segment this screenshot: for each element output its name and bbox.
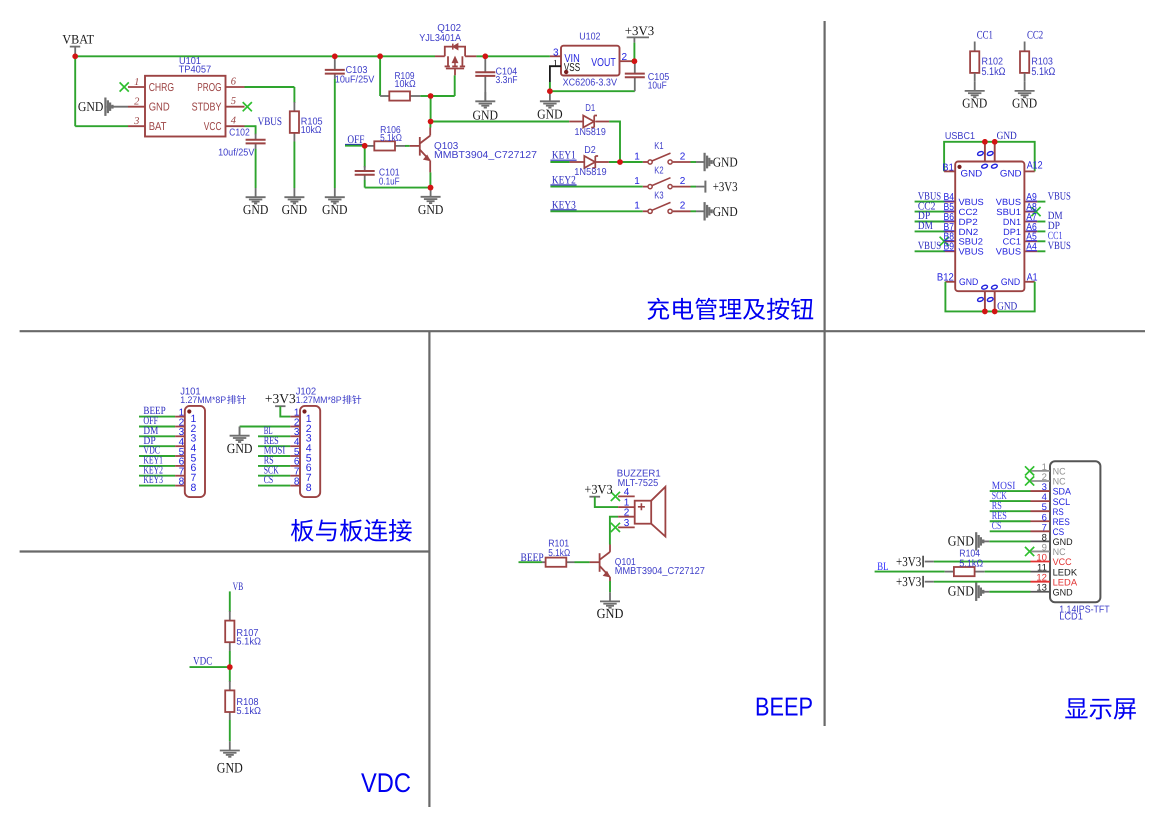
usb pad ellipse top-in 2	[991, 163, 998, 168]
svg-text:GND: GND	[78, 99, 104, 114]
svg-text:5.1kΩ: 5.1kΩ	[236, 706, 261, 717]
junction usb bottom 2	[992, 309, 998, 315]
switch K1	[648, 153, 672, 164]
usb pad ellipse bot-out 1	[977, 297, 984, 302]
svg-text:GND: GND	[473, 107, 499, 122]
wire collector node to D1	[431, 121, 570, 123]
wire J102 pin 4	[258, 445, 290, 447]
LCD1 body	[1050, 461, 1100, 602]
svg-text:1: 1	[134, 77, 139, 88]
svg-text:4: 4	[231, 116, 237, 127]
junction VSS gnd	[547, 88, 553, 94]
wire VB	[229, 591, 231, 612]
usb pin A5 stub	[1024, 240, 1037, 242]
wire LCD pin 13 gnd	[983, 591, 989, 593]
svg-text:VBUS: VBUS	[1048, 190, 1071, 202]
svg-text:VCC: VCC	[204, 121, 222, 133]
capacitor C105	[625, 74, 645, 78]
LCD1 pin 9 stub	[1031, 550, 1051, 552]
resistor R108	[225, 690, 234, 712]
wire J102 pin 7	[258, 475, 290, 477]
capacitor C102	[246, 140, 266, 144]
junction OFF node	[362, 143, 368, 149]
usb pin B5 stub	[945, 211, 955, 213]
net label OFF underline	[345, 143, 366, 145]
wire R105 to gnd	[293, 142, 295, 189]
svg-text:+3V3: +3V3	[713, 179, 738, 194]
svg-text:1.27MM*8P: 1.27MM*8P	[180, 395, 226, 406]
svg-text:5: 5	[231, 96, 236, 107]
svg-text:1: 1	[553, 58, 558, 69]
svg-text:CS: CS	[264, 474, 274, 486]
svg-text:10kΩ: 10kΩ	[395, 79, 417, 90]
ground R102	[965, 82, 985, 98]
svg-text:VBAT: VBAT	[62, 32, 94, 47]
svg-text:USBC1: USBC1	[945, 131, 975, 142]
svg-text:GND: GND	[243, 202, 269, 217]
svg-text:5.1kΩ: 5.1kΩ	[380, 133, 402, 144]
LCD1 pin 13 stub	[1031, 591, 1051, 593]
svg-text:+3V3: +3V3	[265, 391, 296, 406]
svg-text:1N5819: 1N5819	[575, 127, 607, 138]
wire K1 to gnd	[691, 161, 697, 163]
wire J101 pin 4	[139, 445, 175, 447]
usb pin A4 stub	[1024, 250, 1037, 252]
wire C101 to emitter	[364, 180, 366, 188]
buzzer pin 3 stub	[618, 526, 635, 528]
wire J101 pin 7	[139, 475, 175, 477]
resistor R107 stubs	[229, 611, 231, 621]
usb pin B6 stub	[945, 221, 955, 223]
resistor R104 stubs	[945, 571, 954, 573]
wire R106 to Q103 base	[405, 145, 410, 147]
svg-text:D2: D2	[584, 145, 596, 156]
K2 pin 2 stub	[673, 186, 691, 188]
usb pad ellipse top-in 1	[981, 163, 988, 168]
connector J101 body	[185, 406, 205, 497]
J101 pin 4 stub	[175, 445, 185, 447]
U102 VSS pin dot	[564, 70, 568, 74]
svg-text:+3V3: +3V3	[896, 574, 921, 589]
usb shield stubs bottom	[984, 291, 986, 311]
svg-text:GND: GND	[948, 534, 974, 549]
svg-text:GND: GND	[597, 607, 624, 622]
wire R103 gnd	[1024, 73, 1026, 82]
IC U101 TP4057 body	[145, 76, 226, 137]
wire OFF	[345, 145, 365, 147]
divider vertical right	[823, 21, 825, 726]
wire to BAT pin	[75, 125, 128, 127]
usb pin B8 stub	[945, 240, 955, 242]
power flag +3V3 U102	[627, 36, 649, 38]
svg-text:1N5819: 1N5819	[574, 167, 607, 178]
LCD1 pin 5 stub	[1031, 510, 1051, 512]
ground R108	[220, 741, 240, 757]
resistor R105 stubs	[293, 102, 295, 111]
KEY3 underline	[550, 209, 576, 211]
wire LCD pin 7	[990, 530, 1031, 532]
svg-text:XC6206-3.3V: XC6206-3.3V	[563, 77, 618, 88]
U102 pin 2 stub	[620, 60, 632, 62]
wire node to R108	[229, 667, 231, 682]
J102 pin 8 stub	[290, 485, 300, 487]
capacitor C101 stubs	[364, 166, 366, 171]
wire C103 to gnd	[334, 79, 336, 188]
wire usb A6	[1037, 230, 1045, 232]
svg-text:LCD1: LCD1	[1059, 612, 1083, 623]
KEY1 underline	[550, 159, 576, 161]
svg-text:8: 8	[294, 476, 300, 487]
wire J101 pin 1	[139, 416, 175, 418]
J101 pin 6 stub	[175, 465, 185, 467]
wire VSS black	[550, 66, 561, 82]
resistor R106	[374, 141, 395, 150]
no-connect X B8	[940, 237, 949, 246]
U101 pin 1 stub	[128, 86, 145, 88]
wire D1 to K1 col	[609, 122, 620, 163]
wire usb B6	[915, 221, 945, 223]
resistor R101 stubs	[542, 561, 546, 563]
svg-text:3: 3	[624, 518, 630, 529]
svg-text:3: 3	[553, 47, 559, 58]
resistor R102	[970, 51, 979, 73]
section title 充电管理及按钮	[648, 298, 814, 320]
svg-text:VBUS: VBUS	[258, 116, 282, 128]
wire VDC	[190, 666, 230, 668]
diode D1 1N5819	[583, 116, 597, 128]
ground J102 pin2	[230, 427, 250, 443]
svg-text:CC1: CC1	[977, 30, 993, 42]
J102 pin 6 stub	[290, 465, 300, 467]
J101 pin 8 stub	[175, 485, 185, 487]
power flag +3V3 LCD pin 10	[922, 556, 924, 568]
J102 pin 1 stub	[290, 416, 300, 418]
svg-text:C102: C102	[229, 128, 250, 139]
svg-text:+3V3: +3V3	[625, 23, 655, 38]
junction VBAT	[72, 54, 78, 60]
K3 pin 2 stub	[673, 210, 691, 212]
wire usb A5	[1037, 240, 1045, 242]
wire K2 to +3V3	[691, 186, 697, 188]
usb pin A9 stub	[1024, 201, 1037, 203]
wire LCD pin 8 gnd	[983, 540, 989, 542]
LCD1 pin 7 stub	[1031, 530, 1051, 532]
svg-text:VOUT: VOUT	[591, 57, 615, 69]
U101 pin 2 stub	[128, 106, 145, 108]
wire PROG to R105	[245, 86, 295, 88]
usb pin A1 stub	[1024, 281, 1034, 283]
wire Q103 collector node	[430, 96, 432, 122]
wire usb B9	[915, 250, 945, 252]
svg-text:VBUS: VBUS	[959, 197, 984, 207]
wire R107 to node	[229, 651, 231, 667]
wire VBAT down	[74, 56, 76, 126]
svg-text:K2: K2	[654, 166, 664, 177]
U101 pin 6 stub	[226, 86, 245, 88]
svg-text:3.3nF: 3.3nF	[496, 75, 518, 86]
resistor R101	[546, 558, 567, 567]
divider horizontal top	[20, 330, 1145, 332]
transistor Q101 MMBT3904	[590, 545, 611, 582]
wire usb A9	[1037, 201, 1045, 203]
LCD1 pin 4 stub	[1031, 500, 1051, 502]
svg-text:DP1: DP1	[1003, 227, 1021, 237]
divider horizontal left	[20, 550, 430, 552]
svg-text:VBUS: VBUS	[918, 240, 941, 252]
buzzer pin 2 stub	[618, 516, 635, 518]
junction dots overlay	[72, 54, 997, 670]
svg-text:KEY3: KEY3	[143, 474, 163, 486]
junction VOUT	[632, 58, 638, 64]
svg-text:VBUS: VBUS	[996, 247, 1021, 257]
wire rail Q102-VIN	[476, 55, 550, 57]
buzzer BUZZER1 symbol	[635, 487, 666, 537]
wire J101 pin 6	[139, 465, 175, 467]
svg-text:GND: GND	[959, 277, 978, 288]
junction K1	[617, 159, 623, 165]
svg-text:B12: B12	[937, 271, 954, 283]
svg-text:GND: GND	[217, 761, 243, 777]
ground C102	[246, 188, 266, 204]
wire usb bottom	[945, 282, 1034, 312]
svg-text:SBU2: SBU2	[959, 237, 983, 247]
svg-text:A12: A12	[1027, 159, 1043, 171]
transistor Q102 YJL3401A	[435, 44, 476, 76]
capacitor C101	[355, 171, 375, 175]
wire R102 gnd	[974, 73, 976, 82]
no-connect X pin5	[243, 102, 252, 111]
svg-text:GND: GND	[322, 202, 348, 217]
wire usb top	[944, 142, 1035, 172]
svg-text:GND: GND	[227, 442, 253, 457]
J101 pin 2 stub	[175, 426, 185, 428]
usb pad ellipse bot-in 2	[991, 284, 998, 289]
svg-text:GND: GND	[997, 130, 1017, 142]
svg-text:K3: K3	[654, 191, 664, 202]
no-connect X LCD pin 9	[1025, 547, 1034, 556]
wire usb B7	[915, 230, 945, 232]
svg-text:GND: GND	[713, 204, 738, 219]
svg-text:B1: B1	[942, 162, 954, 173]
LCD1 pin 3 stub	[1031, 490, 1051, 492]
capacitor C105 stubs	[634, 61, 636, 73]
ground R105	[284, 188, 304, 204]
wire K3 to gnd	[691, 210, 697, 212]
wire VSS to C105	[550, 90, 635, 92]
usb pin B9 stub	[945, 250, 955, 252]
svg-text:0.1uF: 0.1uF	[379, 177, 400, 188]
wire R109 to gate node	[420, 95, 430, 97]
junction R109 top	[377, 54, 383, 60]
J102 pin1 dot	[302, 409, 306, 413]
wire VCC to C102	[245, 125, 256, 127]
usb pin B7 stub	[945, 230, 955, 232]
svg-text:VBUS: VBUS	[959, 247, 984, 257]
wire Q101 emitter	[609, 581, 611, 592]
no-connect X pin1	[120, 82, 129, 91]
usb pin B12 stub	[945, 281, 955, 283]
switch K3	[648, 202, 672, 213]
wire BL to R104	[875, 571, 945, 573]
resistor R103	[1020, 51, 1029, 73]
svg-text:8: 8	[191, 482, 197, 494]
svg-text:VDC: VDC	[193, 655, 213, 667]
svg-text:BEEP: BEEP	[755, 692, 813, 722]
LCD1 pin 12 stub	[1031, 581, 1051, 583]
svg-text:2: 2	[134, 97, 140, 108]
svg-text:GND: GND	[1012, 95, 1037, 110]
switch K2	[648, 178, 672, 189]
svg-text:GND: GND	[1001, 277, 1020, 288]
svg-text:STDBY: STDBY	[192, 102, 222, 114]
wire D2 to K1	[609, 161, 643, 163]
svg-text:5.1kΩ: 5.1kΩ	[236, 637, 261, 648]
J101 pin 7 stub	[175, 475, 185, 477]
ground Q101	[600, 592, 620, 608]
transistor Q103 MMBT3904	[410, 128, 431, 173]
junction VDC	[227, 664, 233, 670]
resistor R104	[954, 567, 975, 576]
power flag VBAT	[70, 46, 80, 48]
resistor R106 stubs	[365, 145, 375, 147]
svg-text:+3V3: +3V3	[584, 482, 612, 497]
svg-text:1: 1	[634, 151, 640, 162]
svg-text:10uF: 10uF	[648, 80, 667, 91]
wire J102 pin 6	[258, 465, 290, 467]
wire +3V3 to buzzer pin1	[595, 497, 618, 507]
wire J101 pin 8	[139, 485, 175, 487]
svg-text:4: 4	[624, 487, 630, 498]
wire usb A7	[1037, 221, 1045, 223]
wire VOUT	[631, 60, 634, 62]
wire J102 pin 3	[258, 435, 290, 437]
J101 pin 3 stub	[175, 435, 185, 437]
no-connect X buzzer pin3	[611, 523, 620, 532]
connector USBC1 body	[955, 162, 1024, 292]
capacitor C102 stubs	[255, 134, 257, 140]
KEY2 underline	[550, 184, 576, 186]
svg-text:MMBT3904_C727127: MMBT3904_C727127	[434, 150, 537, 161]
svg-text:10uF/25V: 10uF/25V	[335, 74, 375, 85]
svg-text:DM: DM	[918, 220, 933, 232]
U102 pin 3 stub	[550, 55, 561, 57]
connector J102 body	[300, 406, 320, 497]
svg-text:CC2: CC2	[959, 207, 978, 217]
wire gate vertical	[454, 75, 456, 96]
power flag +3V3 buzzer	[589, 496, 600, 498]
section title 显示屏	[1065, 698, 1136, 719]
svg-text:6: 6	[231, 76, 237, 87]
wire BEEP	[519, 561, 543, 563]
svg-text:D1: D1	[585, 103, 595, 114]
svg-text:5.1kΩ: 5.1kΩ	[959, 558, 983, 569]
wire VSS green down	[549, 82, 551, 91]
usb pad ellipse bot-out 2	[987, 297, 994, 302]
J101 pin 5 stub	[175, 455, 185, 457]
wire CC1	[974, 42, 976, 52]
J102 pin 2 stub	[290, 426, 300, 428]
capacitor C103	[325, 70, 345, 74]
svg-text:10uf/25V: 10uf/25V	[218, 147, 255, 158]
svg-text:3: 3	[133, 116, 139, 127]
no-connect X LCD pin 1	[1025, 466, 1034, 475]
usb pin A8 stub	[1024, 211, 1037, 213]
buzzer pin 1 stub	[618, 506, 635, 508]
no-connect X LCD pin 2	[1025, 476, 1034, 485]
svg-text:2: 2	[622, 52, 628, 63]
wire KEY2	[550, 186, 642, 188]
LCD1 pin 1 stub	[1031, 470, 1051, 472]
U101 pin 4 stub	[226, 125, 245, 127]
wire LCD pin 3	[990, 490, 1031, 492]
wire R101 to base	[575, 561, 590, 563]
divider vertical left-bottom	[428, 331, 430, 807]
svg-text:SBU1: SBU1	[996, 207, 1021, 217]
wire R104 to pin11	[985, 571, 1031, 573]
resistor R107	[225, 621, 234, 643]
svg-text:DP2: DP2	[959, 217, 978, 227]
svg-text:1: 1	[634, 176, 640, 187]
capacitor C104 stubs	[484, 56, 486, 72]
ground Q103	[421, 188, 441, 204]
svg-text:GND: GND	[282, 202, 308, 217]
svg-text:PROG: PROG	[197, 82, 221, 94]
resistor R109 stubs	[380, 95, 389, 97]
svg-text:CC1: CC1	[1003, 237, 1021, 247]
wire LCD pin 12 3v3	[925, 581, 934, 583]
svg-text:CHRG: CHRG	[149, 82, 174, 94]
wire buzzer pin2 to collector	[610, 517, 618, 545]
svg-text:2: 2	[680, 176, 686, 187]
usb pin A6 stub	[1024, 230, 1037, 232]
usb pad ellipse top-out 1	[977, 151, 984, 156]
usb pin A7 stub	[1024, 221, 1037, 223]
wire KEY3	[550, 210, 642, 212]
svg-text:13: 13	[1036, 583, 1047, 594]
ground R103	[1015, 82, 1035, 98]
J101 pin 1 stub	[175, 416, 185, 418]
wire +3V3 to J102 pin1	[280, 406, 290, 416]
capacitor C103 stubs	[334, 56, 336, 70]
svg-text:1: 1	[634, 201, 640, 212]
wire LCD pin 6	[990, 520, 1031, 522]
wire C102 to gnd	[255, 149, 257, 188]
junction emitter gnd	[428, 185, 434, 191]
usb pin A12 stub	[1024, 170, 1034, 172]
junction collector node	[428, 119, 434, 125]
J101 pin1 dot	[187, 409, 191, 413]
usb pin B4 stub	[945, 201, 955, 203]
LCD1 pin 11 stub	[1031, 571, 1051, 573]
section title 板与板连接	[291, 519, 412, 542]
usb pad ellipse top-out 2	[987, 151, 994, 156]
svg-text:VBUS: VBUS	[996, 197, 1021, 207]
svg-text:BAT: BAT	[149, 121, 167, 133]
resistor R108 stubs	[229, 681, 231, 690]
svg-text:MMBT3904_C727127: MMBT3904_C727127	[615, 566, 705, 577]
power flag +3V3 LCD pin 12	[922, 576, 924, 588]
wire LCD pin 4	[990, 500, 1031, 502]
svg-text:VDC: VDC	[361, 768, 411, 798]
U101 pin 5 stub	[226, 106, 245, 108]
svg-text:DN1: DN1	[1003, 217, 1021, 227]
ground flag K3	[704, 202, 713, 220]
svg-text:+3V3: +3V3	[896, 554, 921, 569]
wire J102 pin 8	[258, 485, 290, 487]
svg-text:2: 2	[680, 201, 686, 212]
wire VOUT up	[633, 43, 635, 62]
svg-text:GND: GND	[961, 169, 983, 180]
